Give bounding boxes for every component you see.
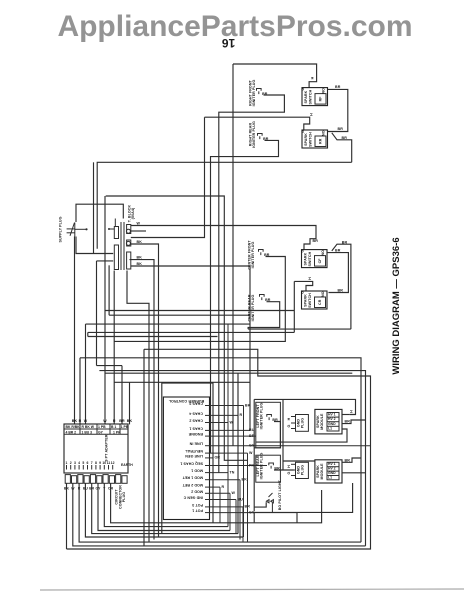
wire bus y196 — [106, 196, 248, 460]
svg-text:5: 5 — [82, 461, 84, 465]
left rear igniter plug pin — [269, 463, 280, 471]
gnd plug LF — [287, 415, 309, 432]
svg-text:9: 9 — [99, 461, 101, 465]
svg-text:HV 2: HV 2 — [328, 467, 336, 471]
wire bus y366 — [97, 365, 123, 367]
svg-text:PLUG: PLUG — [122, 492, 126, 502]
svg-text:CHAS 4: CHAS 4 — [189, 411, 203, 415]
svg-text:TN: TN — [230, 470, 235, 474]
spark switch CR — [300, 291, 327, 309]
wire terminal left y260 — [97, 260, 114, 262]
wire bus y336 — [88, 336, 218, 338]
wire neutral drop — [247, 453, 249, 542]
wire x94 drop from bus162 — [93, 162, 95, 253]
svg-text:7: 7 — [91, 461, 93, 465]
spark switch RR — [301, 130, 328, 148]
wire burner pin drop 4 — [219, 487, 221, 523]
svg-text:W: W — [103, 419, 107, 423]
wire bus y332 — [88, 331, 294, 333]
svg-text:R BK W: R BK W — [82, 425, 95, 429]
svg-text:W: W — [84, 419, 88, 423]
wire connector lead 7 — [104, 483, 228, 526]
svg-text:G: G — [300, 291, 304, 294]
svg-text:IND GEN C: IND GEN C — [183, 496, 203, 500]
svg-text:BR: BR — [345, 420, 351, 424]
wire CF switch contact to bus — [332, 240, 351, 329]
wire supply loop — [76, 204, 123, 222]
svg-text:12: 12 — [111, 461, 115, 465]
wire CR feed riser — [293, 281, 295, 332]
wire x80 drop to adapter — [79, 358, 81, 425]
svg-text:SUPPLY PLUG: SUPPLY PLUG — [59, 216, 63, 242]
wire left front igniter loop — [254, 422, 280, 448]
svg-text:MOD 2: MOD 2 — [191, 489, 203, 493]
center front igniter plug label — [247, 240, 255, 270]
wire terminal right y259 — [130, 256, 155, 540]
wire bus y349 to frame — [67, 349, 371, 549]
svg-text:HV 1: HV 1 — [328, 462, 336, 466]
svg-text:PLUG: PLUG — [301, 418, 305, 428]
svg-text:BK: BK — [137, 262, 143, 266]
svg-text:G: G — [301, 87, 305, 90]
terminal block label — [128, 205, 136, 223]
wire bus y310 — [105, 310, 294, 312]
wire module LR right2 — [342, 472, 366, 474]
center front igniter plug pin — [259, 250, 270, 258]
wire module LF top — [342, 414, 350, 416]
bo pilot light label — [278, 479, 282, 510]
svg-text:W: W — [249, 451, 253, 455]
svg-text:R: R — [222, 485, 225, 489]
wire ring x161 around burner control — [162, 383, 213, 534]
right front igniter plug pin — [257, 89, 268, 97]
wire supply loop bottom — [76, 237, 113, 254]
burner control pin POT 1 — [192, 509, 297, 515]
wire CF switch NO to CR pin — [327, 249, 348, 293]
svg-text:NEUTRAL: NEUTRAL — [184, 449, 203, 453]
svg-text:NO: NO — [321, 250, 325, 256]
wire terminal col x127 jog down — [127, 271, 149, 543]
svg-text:EARTH: EARTH — [121, 463, 133, 467]
svg-text:NO: NO — [321, 291, 325, 297]
svg-text:8: 8 — [95, 461, 97, 465]
svg-text:IGNITER PLUG: IGNITER PLUG — [260, 403, 264, 430]
svg-text:10: 10 — [102, 461, 106, 465]
svg-text:4: 4 — [78, 461, 80, 465]
adapter feed labels — [72, 419, 133, 423]
burner control box — [163, 397, 209, 520]
svg-text:4 BR 2: 4 BR 2 — [66, 430, 77, 434]
svg-text:R: R — [113, 419, 116, 423]
adapter grid — [64, 424, 129, 434]
svg-text:1 BU 3: 1 BU 3 — [82, 430, 93, 434]
burner control pin IND GEN C — [183, 496, 243, 502]
wire RR switch feed — [205, 113, 314, 130]
burner control pin CHAS 3 — [189, 402, 250, 408]
connector wire labels — [64, 487, 114, 491]
wire RR switch contact to bus — [332, 133, 352, 163]
svg-text:R: R — [79, 419, 82, 423]
svg-text:BR: BR — [338, 127, 344, 131]
burner control title — [168, 399, 204, 403]
svg-text:BK R/BK: BK R/BK — [66, 425, 81, 429]
svg-text:2: 2 — [70, 461, 72, 465]
svg-text:HV 1: HV 1 — [328, 413, 336, 417]
svg-text:16: 16 — [222, 36, 236, 50]
svg-text:CHAS 1: CHAS 1 — [189, 426, 203, 430]
svg-text:SWITCH: SWITCH — [308, 293, 312, 308]
svg-text:MODULE: MODULE — [320, 463, 324, 480]
pilot light symbol — [266, 493, 273, 512]
outer frame left — [253, 399, 255, 511]
left rear igniter inner box — [256, 455, 281, 482]
svg-text:RF: RF — [319, 96, 323, 102]
svg-text:GND: GND — [328, 471, 336, 475]
svg-text:IGNITER PLUG: IGNITER PLUG — [260, 453, 264, 480]
svg-text:MOD 2 RET: MOD 2 RET — [182, 483, 203, 487]
svg-text:1: 1 — [66, 461, 68, 465]
wire x105 long drop — [104, 196, 106, 424]
svg-text:POT 1: POT 1 — [192, 509, 203, 513]
svg-text:IGNITER PLUG: IGNITER PLUG — [251, 242, 255, 269]
wire left rear igniter loop — [274, 469, 294, 471]
svg-text:BK: BK — [137, 256, 143, 260]
wire x96 long drop — [96, 261, 98, 366]
wire pilot light bus — [254, 483, 352, 523]
wire connector lead 1 — [66, 483, 68, 549]
svg-text:BK: BK — [245, 403, 251, 407]
svg-text:L1: L1 — [328, 475, 332, 479]
wire module LR right — [342, 458, 361, 462]
svg-text:SWITCH: SWITCH — [308, 132, 312, 147]
svg-text:G: G — [301, 130, 305, 133]
spark switch RF — [301, 87, 328, 105]
wire bus y315 — [109, 314, 250, 316]
wire right rear igniter loop — [211, 140, 279, 453]
svg-text:G: G — [287, 424, 291, 427]
svg-text:GND: GND — [328, 422, 336, 426]
wire terminal col x114 down to adapter — [113, 271, 115, 425]
svg-text:SEQ CHAS 1: SEQ CHAS 1 — [180, 462, 203, 466]
svg-text:BR: BR — [345, 458, 351, 462]
svg-text:H: H — [310, 113, 314, 116]
burner control pin POT 3 — [192, 503, 250, 509]
center rear igniter plug pin — [260, 295, 271, 303]
wire bus y324 — [86, 323, 251, 325]
svg-text:R: R — [240, 413, 243, 417]
svg-text:BK: BK — [137, 240, 143, 244]
spark module LF — [315, 409, 342, 434]
svg-text:IGNITER PLUG: IGNITER PLUG — [252, 121, 256, 148]
outer frame top — [254, 399, 355, 414]
svg-text:LINE IN: LINE IN — [189, 442, 203, 446]
svg-text:PLUG: PLUG — [301, 465, 305, 475]
svg-text:IGNITER PLUG: IGNITER PLUG — [252, 80, 256, 107]
svg-text:L1: L1 — [328, 426, 332, 430]
svg-text:W: W — [232, 491, 236, 495]
wire bus y358 — [80, 358, 361, 542]
svg-text:1 PK: 1 PK — [113, 430, 121, 434]
wire x129 drop to adapter — [129, 382, 131, 424]
svg-text:CHAS 2: CHAS 2 — [189, 419, 203, 423]
wire module LR feed — [283, 460, 315, 462]
wire top feed to RF spark switch — [233, 64, 317, 88]
svg-text:CR: CR — [318, 299, 322, 305]
burner control pin NEUTRAL — [184, 449, 253, 455]
svg-text:BK: BK — [242, 478, 248, 482]
left rear igniter plug label — [256, 453, 264, 480]
svg-text:NO: NO — [322, 88, 326, 94]
svg-text:(50A4): (50A4) — [131, 207, 135, 219]
wire main bus y162 — [97, 162, 352, 249]
wire vertical bus x233 down to burner area — [232, 64, 234, 446]
wire x87 link — [87, 332, 89, 336]
svg-text:BK: BK — [127, 419, 133, 423]
svg-text:MOD 1 RET: MOD 1 RET — [182, 476, 203, 480]
svg-text:H: H — [287, 465, 291, 468]
svg-text:BR: BR — [335, 85, 341, 89]
wire x122 drop to adapter — [121, 366, 123, 425]
svg-text:3: 3 — [74, 461, 76, 465]
wire x109 drop — [108, 265, 110, 315]
svg-text:CF: CF — [318, 258, 322, 264]
wire burner pin drop 6 — [235, 500, 237, 534]
burner control pin LINE GEN — [185, 454, 220, 460]
svg-text:BR: BR — [313, 239, 319, 243]
burner control pin LINE IN — [189, 442, 370, 448]
svg-text:SWITCH: SWITCH — [308, 89, 312, 104]
svg-text:6: 6 — [87, 461, 89, 465]
svg-text:POT 3: POT 3 — [192, 503, 203, 507]
svg-text:BR: BR — [119, 419, 125, 423]
gnd plug LR — [287, 462, 309, 478]
left front igniter plug pin — [267, 415, 278, 423]
circuit connector strip — [65, 475, 127, 484]
svg-text:H: H — [308, 277, 312, 280]
wire pot1 drop — [296, 513, 298, 523]
svg-text:RR: RR — [319, 138, 323, 144]
connector plug label — [115, 485, 127, 509]
wire bus y329 — [248, 328, 351, 330]
right rear igniter plug label — [249, 121, 257, 148]
wire burner pin drop 1 — [243, 406, 245, 538]
svg-text:G: G — [287, 471, 291, 474]
spark module LR — [315, 460, 342, 483]
wire center front igniter loop — [114, 257, 285, 342]
wire lr riser — [282, 399, 284, 470]
wire connector lead 2 — [73, 483, 366, 546]
wire supply lead down to adapter — [74, 237, 76, 425]
right front igniter plug label — [249, 79, 257, 106]
burner control pin MOD 1 — [191, 469, 235, 475]
svg-text:ENGINE: ENGINE — [188, 432, 203, 436]
wire module LF right — [342, 420, 366, 424]
svg-text:G: G — [300, 249, 304, 252]
wire burner pin drop 5 — [229, 493, 231, 530]
svg-text:MOD 1: MOD 1 — [191, 469, 203, 473]
wire burner pin drop 2 — [227, 324, 229, 526]
burner control pin SEQ CHAS 1 — [180, 462, 267, 468]
wire pilot hook — [254, 502, 266, 507]
burner control pin ENGINE — [188, 432, 256, 438]
right rear igniter plug pin — [258, 134, 269, 142]
svg-text:BO PILOT LIGHT: BO PILOT LIGHT — [278, 479, 282, 510]
wire x144 drop — [143, 349, 145, 546]
supply plug label — [59, 216, 63, 242]
wire terminal bus y265 — [131, 262, 250, 430]
wire terminal stub y231 — [131, 230, 146, 232]
wire module LF bottom — [256, 429, 347, 442]
svg-text:MODULE: MODULE — [320, 413, 324, 430]
wire connector lead 5 — [92, 483, 238, 533]
wire center rear igniter loop — [248, 302, 280, 329]
svg-text:BR: BR — [342, 136, 348, 140]
svg-text:BR: BR — [342, 240, 348, 244]
svg-text:B 1: B 1 — [111, 425, 116, 429]
svg-text:NO: NO — [322, 130, 326, 136]
svg-text:BR: BR — [338, 289, 344, 293]
burner control pin MOD 1 RET — [182, 476, 247, 482]
burner control pin MOD 2 RET — [182, 483, 225, 489]
svg-text:1 PB: 1 PB — [98, 425, 106, 429]
svg-text:9 PT ADAPTER: 9 PT ADAPTER — [105, 434, 109, 461]
wire x238 drop — [237, 373, 239, 533]
wire connector lead 6 — [98, 483, 230, 530]
svg-text:BK: BK — [72, 419, 78, 423]
svg-text:BR: BR — [335, 249, 341, 253]
left front igniter plug label — [256, 403, 264, 430]
svg-text:IGNITER PLUG: IGNITER PLUG — [251, 295, 255, 322]
wire right front igniter loop — [219, 95, 285, 473]
svg-text:CHAS 3: CHAS 3 — [189, 402, 203, 406]
wire x85 drop to adapter — [85, 324, 87, 424]
svg-text:H: H — [287, 417, 291, 420]
center rear igniter plug label — [247, 294, 255, 321]
wire connector lead 3 — [79, 483, 361, 542]
bottom scan edge line — [40, 589, 464, 590]
wire connector lead 4 — [85, 483, 243, 537]
9 pt adapter box — [64, 424, 128, 473]
supply plug symbol — [67, 223, 88, 237]
burner control pin CHAS 1 — [189, 426, 254, 432]
terminal block — [108, 219, 131, 271]
wire RF switch NO to RR pin — [328, 85, 348, 131]
svg-text:HV 2: HV 2 — [328, 417, 336, 421]
left front igniter inner box — [256, 402, 281, 448]
svg-text:1 PB: 1 PB — [121, 425, 129, 429]
adapter label — [105, 434, 109, 461]
adapter pin row — [66, 461, 134, 470]
wire bus y382 — [115, 381, 251, 383]
svg-text:WIRING DIAGRAM — GPS36-6: WIRING DIAGRAM — GPS36-6 — [391, 237, 402, 374]
svg-text:OR: OR — [215, 456, 221, 460]
wire bus y373 — [105, 372, 352, 374]
burner control pin CHAS 4 — [189, 411, 242, 417]
wire CR switch feed — [294, 277, 312, 291]
svg-text:SWITCH: SWITCH — [308, 251, 312, 266]
wire burner pin drop 7 — [242, 507, 244, 542]
svg-text:GY: GY — [98, 430, 104, 434]
svg-text:H: H — [350, 410, 354, 413]
svg-text:W: W — [230, 420, 234, 424]
wire RR feed riser to terminal — [131, 117, 205, 237]
svg-text:H: H — [311, 76, 315, 79]
svg-text:W: W — [137, 222, 141, 226]
wire bus y370 — [99, 371, 365, 546]
wire terminal to CF switch feed — [131, 222, 318, 250]
burner control pin MOD 2 — [191, 489, 235, 495]
spark switch CF — [300, 249, 327, 267]
wire burner pin drop 3 — [239, 480, 241, 540]
wire connector lead 8 — [111, 483, 322, 523]
svg-text:LINE GEN: LINE GEN — [185, 454, 203, 458]
burner control pin CHAS 2 — [189, 419, 233, 425]
wire terminal right y242 — [131, 240, 159, 537]
